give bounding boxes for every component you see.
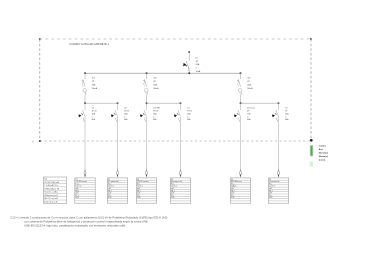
svg-text:C1: C1 bbox=[92, 107, 94, 109]
node: supply tap bbox=[188, 51, 190, 53]
svg-text:Item C5 x: Item C5 x bbox=[247, 106, 255, 109]
MCB C6 contact marks bbox=[272, 114, 275, 117]
load table 2 texts bbox=[108, 179, 119, 199]
wire: branch 4 drop bbox=[180, 116, 182, 170]
svg-text:40A: 40A bbox=[92, 84, 96, 87]
label: MCB C1 ratings bbox=[92, 107, 97, 121]
MCB C6 contact tick bbox=[275, 113, 277, 115]
svg-text:42 B: 42 B bbox=[269, 197, 273, 199]
svg-text:42 B: 42 B bbox=[75, 197, 79, 199]
load table 4 box bbox=[170, 178, 190, 203]
svg-text:6kA: 6kA bbox=[187, 118, 191, 121]
load table 3 texts bbox=[137, 179, 149, 199]
load arrow 5 tip bbox=[240, 175, 242, 178]
node: bus junction 2 bbox=[146, 72, 148, 74]
wire: RCD 3 lower stub bbox=[240, 95, 242, 103]
load table 1 box bbox=[75, 178, 95, 203]
load table 1 texts bbox=[75, 179, 87, 199]
svg-text:IG: IG bbox=[196, 57, 199, 59]
wire: branch 1 upper stub bbox=[84, 103, 86, 110]
MCB C2 thermal element (red) bbox=[115, 118, 118, 122]
wire: RCD 2 upper stub bbox=[146, 73, 148, 79]
MCB C1 contact tick bbox=[81, 113, 83, 115]
wire: branch 3 drop bbox=[146, 116, 148, 170]
svg-text:UNE-EN 21123-4: bajo tubo, can: UNE-EN 21123-4: bajo tubo, canalización … bbox=[24, 223, 126, 227]
RCD ID2 trip marks bbox=[145, 93, 148, 95]
MCB C5 contact tick bbox=[237, 113, 239, 115]
svg-text:Cablea: Cablea bbox=[319, 145, 327, 147]
MCB C3 thermal element (red) bbox=[144, 118, 147, 122]
MCB C6 blade bbox=[276, 110, 278, 116]
svg-text:6kA: 6kA bbox=[153, 118, 157, 121]
load table 4 texts bbox=[171, 179, 183, 199]
RCD ID1 trip marks bbox=[84, 93, 87, 95]
wire: branch 6 upper stub bbox=[278, 103, 280, 110]
svg-text:Monta(x): Monta(x) bbox=[319, 155, 328, 158]
svg-text:30mA: 30mA bbox=[247, 87, 253, 90]
enclosure boundary dashed bottom bbox=[40, 140, 311, 142]
node: bus junction 3 bbox=[240, 72, 242, 74]
svg-text:40A: 40A bbox=[153, 84, 157, 87]
load arrow 4 outline bbox=[180, 170, 182, 177]
wire: branch 5 drop bbox=[240, 116, 242, 170]
main breaker QG thermal element (red) bbox=[187, 67, 190, 71]
svg-text:C4: C4 bbox=[187, 107, 189, 109]
load table 2 row lines bbox=[107, 180, 127, 201]
node: sub-bus right 1 bbox=[117, 102, 119, 104]
load table 5 row lines bbox=[230, 180, 250, 201]
MCB C6 thermal element (red) bbox=[276, 118, 279, 122]
MCB C1 contact marks bbox=[79, 114, 82, 117]
label: RCD ID2 ratings bbox=[153, 78, 159, 90]
RCD ID3 toroid bbox=[238, 89, 242, 93]
RCD ID3 trip marks bbox=[239, 93, 242, 95]
svg-text:CUADRO AUXILIAR GABINETE 1: CUADRO AUXILIAR GABINETE 1 bbox=[69, 43, 109, 46]
highlight dash core (green) bbox=[311, 146, 313, 155]
label: MCB C6 ratings bbox=[285, 107, 289, 121]
load table 3 box bbox=[136, 178, 156, 203]
MCB C3 blade bbox=[144, 110, 146, 116]
load table 1 row lines bbox=[75, 180, 95, 201]
svg-text:ID1: ID1 bbox=[92, 78, 96, 80]
node: sub-bus left 1 bbox=[84, 102, 86, 104]
svg-text:C: C bbox=[285, 116, 287, 118]
legend table box bbox=[43, 177, 66, 203]
wire: RCD 3 upper stub bbox=[240, 73, 242, 79]
svg-text:C6: C6 bbox=[285, 107, 287, 109]
svg-text:1P+N: 1P+N bbox=[187, 110, 192, 112]
svg-text:63A: 63A bbox=[196, 63, 200, 66]
RCD ID2 trip element (red) bbox=[146, 92, 149, 95]
label: MCB C2 ratings bbox=[124, 107, 129, 121]
svg-text:Tecn (1L.x) xBxx: Tecn (1L.x) xBxx bbox=[44, 192, 58, 194]
enclosure boundary dashed top bbox=[40, 38, 311, 40]
svg-text:T 1-4B (xB) TR x: T 1-4B (xB) TR x bbox=[44, 185, 58, 187]
load arrow 1 tip bbox=[84, 175, 86, 178]
svg-text:(BL LTD xx) xxB: (BL LTD xx) xxB bbox=[44, 198, 58, 200]
load table 5 box bbox=[230, 178, 250, 203]
svg-text:LT-234 TR(B) xxB: LT-234 TR(B) xxB bbox=[44, 182, 60, 184]
load arrow 4 tip bbox=[180, 175, 182, 178]
svg-text:C: C bbox=[153, 116, 155, 118]
svg-text:42 B: 42 B bbox=[108, 197, 112, 199]
RCD ID2 toroid bbox=[144, 89, 148, 93]
wire: branch 3 upper stub bbox=[146, 103, 148, 110]
RCD ID2 blade bbox=[144, 79, 146, 86]
load arrow 3 tip bbox=[146, 175, 148, 178]
MCB C5 contact marks bbox=[234, 114, 237, 117]
svg-text:42 B: 42 B bbox=[137, 197, 141, 199]
wire: RCD 1 lower stub bbox=[84, 95, 86, 103]
sub-busbar group 2 bbox=[147, 102, 181, 104]
svg-text:C: C bbox=[124, 116, 126, 118]
MCB C1 blade bbox=[82, 110, 84, 116]
svg-text:2P: 2P bbox=[285, 110, 288, 112]
MCB C2 blade bbox=[115, 110, 117, 116]
wire: branch 4 upper stub bbox=[180, 103, 182, 110]
highlight dash (green) bbox=[310, 145, 313, 156]
RCD ID3 trip element (red) bbox=[240, 92, 243, 95]
svg-text:C3x HB: C3x HB bbox=[153, 107, 160, 109]
wire: feed upper bbox=[188, 52, 190, 61]
svg-text:C: C bbox=[247, 116, 249, 118]
corner mark bottom-left bbox=[39, 140, 41, 142]
MCB C4 contact tick bbox=[177, 113, 179, 115]
svg-text:ID3: ID3 bbox=[247, 78, 251, 80]
label: MCB C4 ratings bbox=[187, 107, 192, 121]
MCB C5 thermal element (red) bbox=[238, 118, 241, 122]
svg-text:C1S = Línea de 2 conductores d: C1S = Línea de 2 conductores de Cu en se… bbox=[10, 215, 167, 219]
svg-text:4P: 4P bbox=[247, 81, 250, 83]
svg-text:4P: 4P bbox=[196, 61, 199, 63]
wire: branch 6 drop bbox=[278, 116, 280, 170]
svg-text:16A: 16A bbox=[124, 112, 128, 115]
svg-text:16A: 16A bbox=[153, 112, 157, 115]
legend table row lines bbox=[43, 180, 66, 200]
svg-text:2P: 2P bbox=[92, 81, 95, 83]
load arrow 1 outline bbox=[84, 170, 86, 177]
RCD ID1 contact arc bbox=[81, 82, 84, 87]
load arrow 2 tip bbox=[117, 175, 119, 178]
svg-text:42 B: 42 B bbox=[231, 197, 235, 199]
MCB C4 thermal element (red) bbox=[178, 118, 181, 122]
svg-text:C2: C2 bbox=[124, 107, 126, 109]
enclosure boundary dashed left bbox=[39, 39, 41, 141]
legend table texts bbox=[44, 179, 60, 204]
RCD ID3 blade bbox=[238, 79, 240, 86]
svg-text:42 B: 42 B bbox=[171, 197, 175, 199]
MCB C3 contact tick bbox=[143, 113, 145, 115]
wire: RCD 2 lower stub bbox=[146, 95, 148, 103]
svg-text:Aco: Aco bbox=[319, 148, 324, 151]
node: sub-bus right 3 bbox=[278, 102, 280, 104]
corner mark top-left bbox=[39, 38, 41, 40]
svg-text:10kA: 10kA bbox=[196, 70, 201, 73]
svg-text:10A: 10A bbox=[92, 112, 96, 115]
svg-text:C: C bbox=[92, 116, 94, 118]
load arrow 6 outline bbox=[278, 170, 280, 177]
node: bus junction 1 bbox=[84, 72, 86, 74]
MCB C2 contact marks bbox=[111, 114, 114, 117]
svg-text:6kA: 6kA bbox=[285, 118, 289, 121]
load table 6 row lines bbox=[268, 180, 288, 201]
label: RCD ID1 ratings bbox=[92, 78, 98, 90]
svg-text:4P: 4P bbox=[247, 110, 250, 112]
load arrow 5 outline bbox=[240, 170, 242, 177]
MCB C2 contact tick bbox=[114, 113, 116, 115]
svg-text:(caso): (caso) bbox=[319, 159, 326, 161]
svg-text:30mA: 30mA bbox=[153, 87, 159, 90]
main breaker QG contact marks bbox=[183, 63, 186, 67]
svg-text:6kA: 6kA bbox=[247, 118, 251, 121]
RCD ID1 toroid bbox=[83, 89, 87, 93]
RCD ID3 contact arc bbox=[237, 82, 240, 87]
svg-text:Monta(x): Monta(x) bbox=[319, 151, 328, 154]
svg-text:16A: 16A bbox=[285, 112, 289, 115]
MCB C4 blade bbox=[178, 110, 180, 116]
node: sub-bus left 2 bbox=[146, 102, 148, 104]
label: main breaker ratings bbox=[196, 57, 201, 73]
label: MCB C5 ratings bbox=[247, 106, 255, 121]
RCD ID2 contact arc bbox=[143, 82, 146, 87]
svg-text:30mA: 30mA bbox=[92, 87, 98, 90]
label: RCD ID3 ratings bbox=[247, 78, 253, 90]
highlight dash halo (green) bbox=[310, 145, 314, 157]
svg-text:T3B: T3B bbox=[247, 113, 251, 115]
highlight dash faint (green) bbox=[310, 162, 313, 167]
annotation text right bbox=[319, 145, 328, 161]
enclosure boundary dashed right bbox=[310, 39, 312, 141]
node: sub-bus left 3 bbox=[240, 102, 242, 104]
wire: branch 5 upper stub bbox=[240, 103, 242, 110]
RCD ID1 contact tick bbox=[82, 80, 84, 81]
wire: branch 1 drop bbox=[84, 116, 86, 170]
load arrow 6 tip bbox=[278, 175, 280, 178]
wire: branch 2 drop bbox=[117, 116, 119, 170]
svg-text:con cubierta de Poliolefina (l: con cubierta de Poliolefina (libre de ha… bbox=[24, 219, 148, 223]
svg-text:6kA: 6kA bbox=[92, 118, 96, 121]
sub-busbar group 3 bbox=[241, 102, 279, 104]
main breaker QG blade bbox=[186, 61, 189, 69]
corner mark top-right bbox=[310, 38, 312, 40]
MCB C4 contact marks bbox=[174, 114, 177, 117]
wire: branch 2 upper stub bbox=[117, 103, 119, 110]
svg-text:6kA: 6kA bbox=[124, 118, 128, 121]
svg-text:C: C bbox=[196, 68, 198, 70]
load table 4 row lines bbox=[170, 180, 190, 201]
load table 6 texts bbox=[269, 179, 280, 199]
stray tick outside bottom-left corner bbox=[32, 140, 34, 142]
RCD ID1 blade bbox=[83, 79, 85, 86]
svg-text:1P+N: 1P+N bbox=[153, 110, 158, 112]
load table 6 box bbox=[268, 178, 288, 203]
svg-text:2P: 2P bbox=[153, 81, 156, 83]
sub-busbar group 1 bbox=[85, 102, 118, 104]
svg-text:1P+N: 1P+N bbox=[92, 110, 97, 112]
load arrow 3 outline bbox=[146, 170, 148, 177]
svg-text:C: C bbox=[187, 116, 189, 118]
load table 3 row lines bbox=[136, 180, 156, 201]
svg-text:40A: 40A bbox=[247, 84, 251, 87]
svg-text:1P+N: 1P+N bbox=[124, 110, 129, 112]
RCD ID1 trip element (red) bbox=[84, 92, 87, 95]
MCB C1 thermal element (red) bbox=[82, 118, 85, 122]
svg-text:Ta4: Ta4 bbox=[44, 179, 47, 181]
RCD ID3 contact tick bbox=[237, 80, 239, 81]
MCB C5 blade bbox=[238, 110, 240, 116]
marker dot at dashed border corner bbox=[310, 139, 313, 142]
svg-text:TTEB-4 (B) xx TB: TTEB-4 (B) xx TB bbox=[44, 188, 60, 190]
MCB C3 contact marks bbox=[140, 114, 143, 117]
svg-text:ID2: ID2 bbox=[153, 78, 157, 80]
main breaker QG contact tick bbox=[185, 65, 187, 66]
node: bus feed junction bbox=[188, 72, 190, 74]
load table 5 texts bbox=[231, 179, 242, 199]
busbar bbox=[85, 72, 241, 74]
node: sub-bus right 2 bbox=[180, 102, 182, 104]
svg-text:(Oa4 T4 x) xx B: (Oa4 T4 x) xx B bbox=[44, 202, 58, 204]
load table 2 box bbox=[107, 178, 127, 203]
RCD ID2 contact tick bbox=[143, 80, 145, 81]
svg-text:(P.Bmxxxx) xx B: (P.Bmxxxx) xx B bbox=[44, 195, 58, 197]
label: MCB C3 ratings bbox=[153, 107, 160, 121]
wire: RCD 1 upper stub bbox=[84, 73, 86, 79]
svg-text:16A: 16A bbox=[187, 112, 191, 115]
load arrow 2 outline bbox=[117, 170, 119, 177]
wire: feed lower bbox=[188, 69, 190, 73]
